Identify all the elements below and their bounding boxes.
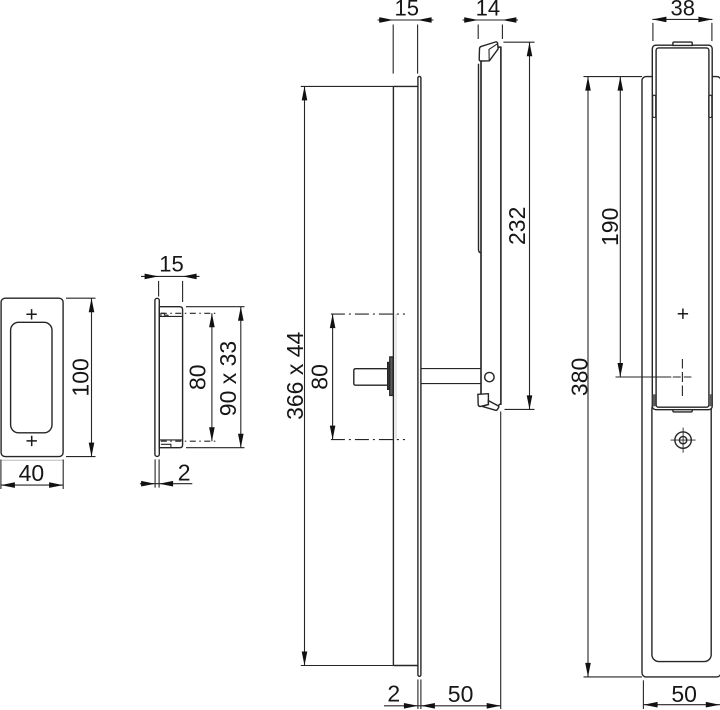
dim 38 arrows [652, 17, 712, 23]
svg-text:80: 80 [306, 364, 332, 390]
grip opening edge line [395, 314, 397, 440]
dim 38 extension lines [653, 23, 712, 41]
face plate (thin stadium) [155, 298, 159, 456]
svg-text:2: 2 [387, 681, 400, 707]
dim 366x44 arrows [302, 86, 308, 665]
body top edge [393, 85, 418, 87]
faint lower edge line [1, 459, 64, 461]
dim 366x44 extension lines [301, 86, 394, 665]
svg-text:38: 38 [671, 0, 695, 20]
top extension line [584, 76, 643, 78]
svg-text:15: 15 [159, 251, 183, 276]
spindle [354, 369, 388, 386]
dim 40 arrows [1, 482, 63, 488]
handle hole [485, 372, 494, 381]
dash-dot opening bottom [331, 439, 405, 441]
hidden recess dash-dot bottom [161, 440, 216, 442]
dim 14 line [463, 19, 519, 21]
dim 2 arrows bottom [404, 703, 435, 709]
dim 40 extension lines [1, 460, 63, 490]
dim 2 arrows [141, 481, 173, 487]
cover inner line [656, 48, 709, 407]
hidden fixing cross [673, 359, 692, 396]
dim 40 line [1, 484, 63, 486]
recess interior bottom line [160, 439, 182, 441]
cover bottom tab [673, 410, 692, 412]
svg-text:15: 15 [394, 0, 418, 20]
svg-text:40: 40 [19, 460, 45, 486]
dim 100 line [91, 298, 93, 456]
hidden recess dash-dot top [161, 312, 216, 314]
dim 50 line [644, 704, 720, 706]
handle top cap [479, 42, 498, 61]
svg-text:2: 2 [178, 460, 191, 486]
dim 366x44 line [304, 86, 306, 665]
dim 380 arrows [585, 77, 591, 677]
svg-text:90 x 33: 90 x 33 [215, 341, 241, 416]
recess body [159, 307, 182, 448]
lower recess [652, 402, 711, 662]
cover outer [652, 45, 712, 410]
handle bottom boot [478, 394, 489, 407]
body bottom edge [393, 665, 418, 667]
rosette target [675, 432, 691, 448]
plus mark bottom [27, 436, 37, 446]
plus mark cover [678, 309, 688, 319]
dim 90x33 line [240, 307, 242, 448]
dim 50 extension line [642, 680, 644, 709]
svg-text:232: 232 [504, 207, 530, 245]
svg-text:100: 100 [68, 358, 94, 396]
svg-text:14: 14 [476, 0, 500, 20]
svg-text:80: 80 [185, 364, 211, 390]
dim 2 line [140, 483, 192, 485]
dim 14 arrows [464, 17, 516, 23]
dim 15 arrows [379, 17, 431, 23]
dim 50 arrows [644, 702, 720, 708]
recess interior top line [160, 315, 182, 317]
clip slots top [653, 95, 656, 117]
top notch [161, 313, 168, 316]
dim 80 arrows [330, 314, 336, 440]
flush pull recess [11, 322, 52, 433]
dim 14 extension lines [478, 25, 502, 40]
dim 100 extension lines [66, 298, 96, 456]
dim 15 extension lines [159, 281, 183, 302]
dim 190 arrows [618, 77, 624, 377]
bottom notch [161, 444, 171, 447]
dim 232 extension lines [503, 42, 534, 409]
pull handle grip strip [479, 64, 482, 253]
plus mark top [26, 309, 36, 319]
dim 15 line [378, 19, 434, 21]
dim 80 line [332, 314, 334, 440]
bottom extension lines [418, 412, 501, 710]
dim 90x33 arrows [238, 307, 244, 448]
bar bottom edge [498, 404, 501, 406]
long plate [642, 77, 720, 677]
flush pull outer plate [1, 298, 63, 456]
svg-text:50: 50 [671, 681, 697, 707]
clip slots bottom (hatched) [653, 394, 656, 406]
backplate body left face [392, 86, 394, 665]
dim 15 extension lines [393, 25, 417, 74]
dim 15 arrows [145, 274, 197, 280]
dim 80 line [211, 313, 213, 441]
body left face line [158, 307, 160, 448]
thin base plate (stadium) [418, 76, 421, 676]
dim 232 line [529, 42, 531, 409]
dim 190 line [619, 77, 621, 377]
cover top tab [673, 42, 692, 45]
dim 190 bottom extension [616, 376, 672, 378]
svg-text:50: 50 [448, 681, 474, 707]
spindle shaft through door [421, 369, 481, 384]
dim 50 arrow bottom [487, 703, 501, 709]
dim 90x33 extension lines [186, 307, 245, 448]
dim 100 arrows [89, 298, 95, 456]
svg-text:190: 190 [597, 208, 623, 246]
pull handle bar [481, 47, 501, 405]
svg-text:380: 380 [566, 358, 592, 396]
spindle collar [388, 363, 391, 390]
dim 380 bottom extension [584, 676, 643, 678]
dim 80 arrows [209, 313, 215, 441]
dim 38 line [652, 18, 712, 20]
dim 232 arrows [527, 42, 533, 409]
svg-text:366 x 44: 366 x 44 [282, 331, 308, 419]
dim 380 line [587, 77, 589, 677]
dash-dot opening top [331, 313, 405, 315]
dim 2/50 bottom line [384, 705, 501, 707]
dim 15 line [141, 275, 200, 277]
dim 2 extension lines [155, 459, 159, 487]
